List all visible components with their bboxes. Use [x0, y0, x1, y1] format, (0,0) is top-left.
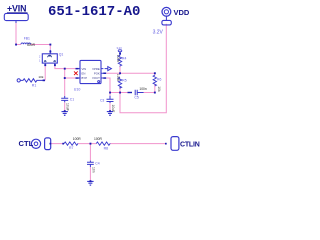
svg-text:R5: R5 [122, 78, 126, 82]
svg-text:600R: 600R [27, 43, 36, 47]
svg-text:100R: 100R [94, 137, 103, 141]
svg-text:U10: U10 [74, 88, 81, 92]
svg-text:R1: R1 [32, 83, 37, 87]
svg-text:651-1617-A0: 651-1617-A0 [48, 4, 140, 20]
svg-text:10k: 10k [157, 86, 161, 92]
svg-text:R8: R8 [104, 147, 109, 151]
svg-text:CTL: CTL [19, 139, 34, 148]
svg-text:EN: EN [82, 71, 86, 75]
svg-text:C4: C4 [95, 162, 99, 166]
svg-text:C5: C5 [134, 95, 139, 99]
svg-text:VDD: VDD [174, 8, 190, 17]
svg-text:POK: POK [94, 71, 100, 75]
svg-text:100n: 100n [139, 87, 147, 91]
svg-text:FB1: FB1 [24, 37, 30, 41]
svg-text:C3: C3 [100, 98, 104, 102]
svg-text:VOUT: VOUT [92, 76, 100, 80]
svg-text:2: 2 [39, 55, 41, 58]
svg-text:CTLIN: CTLIN [180, 141, 200, 148]
svg-text:10uF: 10uF [66, 103, 70, 111]
svg-text:R6: R6 [157, 77, 161, 81]
svg-text:+VIN: +VIN [7, 4, 26, 14]
svg-text:R4: R4 [122, 56, 126, 60]
svg-text:10uF: 10uF [111, 105, 115, 113]
svg-text:100R: 100R [73, 137, 82, 141]
svg-text:10n: 10n [91, 167, 95, 173]
svg-text:3.2V: 3.2V [117, 46, 123, 50]
svg-text:VPRE: VPRE [92, 67, 100, 71]
svg-text:C1: C1 [70, 98, 74, 102]
svg-text:R7: R7 [69, 146, 74, 150]
svg-text:1: 1 [39, 59, 41, 62]
svg-text:100k: 100k [116, 55, 120, 63]
svg-text:VIN: VIN [82, 67, 87, 71]
svg-text:BYP: BYP [82, 76, 88, 80]
svg-text:10k: 10k [38, 75, 43, 79]
svg-text:100k: 100k [116, 74, 120, 82]
svg-text:Q1: Q1 [59, 52, 64, 56]
svg-text:3.2V: 3.2V [153, 29, 164, 35]
